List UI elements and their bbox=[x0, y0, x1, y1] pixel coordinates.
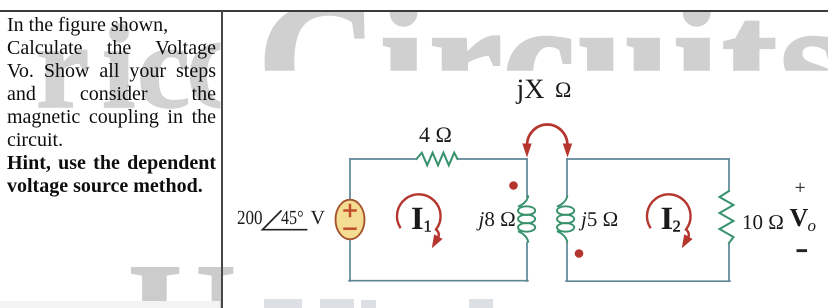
wire: left mesh top bbox=[350, 158, 527, 160]
svg-text:j5 Ω: j5 Ω bbox=[578, 207, 618, 231]
label Vo bbox=[790, 203, 817, 235]
inductor L1 j8 ohm coil bbox=[518, 196, 535, 242]
coupling jX label bbox=[516, 74, 572, 105]
svg-text:1: 1 bbox=[424, 217, 432, 236]
svg-text:4 Ω: 4 Ω bbox=[419, 122, 452, 147]
problem statement text bbox=[7, 14, 216, 198]
watermark "ric C" left panel bbox=[36, 0, 255, 133]
label 200/45deg V bbox=[237, 207, 326, 229]
wire: left mesh bottom bbox=[349, 280, 528, 282]
svg-text:2: 2 bbox=[673, 217, 681, 236]
bottom faint letter tops bbox=[0, 299, 493, 308]
wire: right mesh bottom bbox=[566, 280, 730, 282]
arrowhead I2 bbox=[682, 234, 693, 248]
coupling arrowhead right bbox=[563, 144, 572, 158]
svg-text:+: + bbox=[795, 177, 806, 199]
svg-text:200: 200 bbox=[237, 207, 263, 229]
wire: right mesh right side bbox=[728, 159, 730, 281]
arrowhead I1 bbox=[432, 234, 443, 248]
resistor R1 4 ohm bbox=[417, 153, 458, 166]
label I1 bbox=[411, 201, 432, 237]
voltage source V1 200/45 V bbox=[336, 200, 365, 240]
polarity dot D2 bbox=[575, 249, 584, 258]
inductor L2 j5 ohm coil bbox=[557, 196, 574, 242]
coupling arrowhead left bbox=[522, 144, 531, 158]
resistor R2 10 ohm bbox=[720, 191, 734, 243]
svg-text:V: V bbox=[311, 207, 326, 229]
mesh current arrow I2 bbox=[647, 194, 691, 236]
table border lines bbox=[0, 10, 828, 12]
svg-text:V: V bbox=[790, 203, 809, 232]
mutual coupling arc bbox=[527, 124, 568, 144]
polarity dot D1 bbox=[509, 181, 518, 190]
source plus sign bbox=[345, 205, 356, 216]
wire: left mesh left side bbox=[349, 159, 351, 281]
angle symbol of source label bbox=[263, 211, 307, 230]
wire: right mesh top bbox=[567, 158, 729, 160]
label I2 bbox=[661, 201, 681, 237]
svg-text:j8 Ω: j8 Ω bbox=[476, 207, 516, 231]
source minus sign bbox=[345, 227, 356, 230]
wire: left mesh right side bbox=[526, 159, 528, 281]
Vo minus terminal bbox=[797, 249, 808, 252]
svg-text:Ω: Ω bbox=[555, 77, 571, 102]
wire: right mesh left side bbox=[566, 159, 568, 281]
svg-text:o: o bbox=[808, 216, 817, 235]
svg-text:jX: jX bbox=[516, 74, 545, 105]
svg-text:10 Ω: 10 Ω bbox=[742, 210, 784, 234]
mesh current arrow I1 bbox=[397, 194, 441, 236]
svg-text:I: I bbox=[661, 201, 674, 237]
svg-text:I: I bbox=[411, 201, 424, 237]
watermark "Circuits" top band bbox=[258, 0, 828, 151]
svg-text:45°: 45° bbox=[281, 207, 304, 229]
